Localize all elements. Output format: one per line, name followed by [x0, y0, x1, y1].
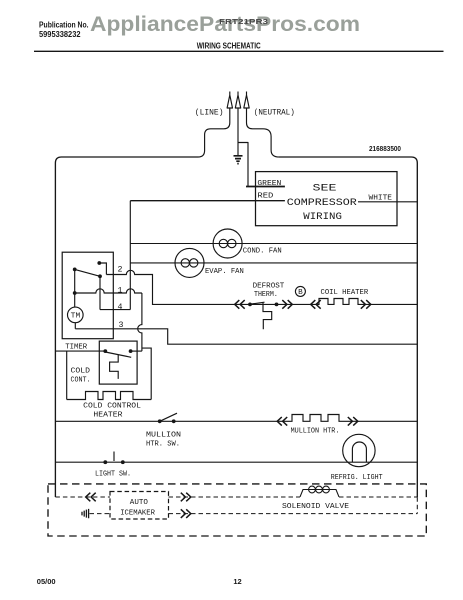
neutral-side plug lead — [247, 108, 279, 157]
connector chevrons defrost — [235, 300, 245, 309]
svg-text:EVAP. FAN: EVAP. FAN — [205, 268, 244, 276]
svg-text:HEATER: HEATER — [93, 411, 123, 419]
line-side plug lead — [198, 108, 230, 157]
evap fan line — [130, 262, 417, 264]
svg-text:SEE: SEE — [313, 183, 337, 195]
mullion heater line — [55, 415, 417, 422]
svg-text:CONT.: CONT. — [71, 377, 91, 385]
timer motor TM — [68, 307, 84, 323]
svg-text:WIRING SCHEMATIC: WIRING SCHEMATIC — [197, 42, 261, 51]
red wire — [130, 200, 285, 202]
svg-text:1: 1 — [118, 286, 123, 296]
cold control heater resistor — [67, 392, 152, 400]
cold control box — [99, 341, 137, 384]
svg-text:WIRING: WIRING — [303, 211, 342, 223]
svg-text:4: 4 — [118, 302, 123, 312]
icemaker feed dashed wire — [55, 497, 417, 514]
svg-text:5995338232: 5995338232 — [39, 30, 81, 39]
optional equipment dashed enclosure — [48, 484, 426, 536]
node B — [295, 286, 305, 296]
svg-text:(LINE): (LINE) — [195, 108, 224, 118]
svg-text:AUTO: AUTO — [130, 499, 149, 507]
light switch — [113, 452, 115, 462]
left border wire — [55, 157, 198, 497]
svg-text:TIMER: TIMER — [65, 344, 87, 352]
white wire — [358, 201, 417, 203]
timer motor wire terminal 3 — [75, 323, 417, 345]
svg-text:COMPRESSOR: COMPRESSOR — [287, 197, 358, 209]
cold control feed wire — [55, 350, 105, 352]
icemaker dashed box — [110, 492, 169, 520]
svg-text:12: 12 — [233, 577, 241, 586]
svg-text:216883500: 216883500 — [369, 146, 401, 153]
mullion heater switch — [160, 413, 177, 421]
svg-text:COND. FAN: COND. FAN — [243, 248, 282, 256]
timer pivot wire — [74, 269, 76, 307]
header rule — [34, 50, 444, 52]
ground prong wire — [237, 108, 239, 155]
cond fan motor — [213, 229, 242, 258]
svg-text:RED: RED — [257, 193, 274, 201]
svg-text:(NEUTRAL): (NEUTRAL) — [254, 108, 295, 118]
svg-text:B: B — [298, 289, 303, 297]
refrigerator light lamp — [343, 434, 375, 466]
ground prong arrow — [235, 92, 240, 109]
timer contact wire term2 to defrost line — [99, 263, 249, 304]
neutral prong arrow — [244, 92, 249, 109]
light switch line — [55, 461, 417, 463]
svg-text:WHITE: WHITE — [369, 195, 393, 203]
svg-text:TM: TM — [71, 313, 81, 321]
timer terminal1 wire to cold control — [75, 289, 152, 400]
ground symbol — [234, 156, 243, 164]
water inlet symbol — [82, 509, 89, 518]
cold control switch blade — [105, 352, 131, 357]
timer box — [62, 252, 113, 339]
cold control heater branch — [66, 351, 68, 399]
svg-text:THERM.: THERM. — [254, 291, 278, 299]
right border wire — [279, 157, 417, 497]
svg-text:05/00: 05/00 — [37, 577, 56, 586]
timer switch blade — [75, 269, 100, 276]
svg-text:REFRIG. LIGHT: REFRIG. LIGHT — [331, 474, 383, 482]
svg-text:ICEMAKER: ICEMAKER — [120, 510, 155, 518]
cold control output wire — [131, 350, 142, 352]
compressor box U1 — [256, 172, 398, 226]
svg-text:HTR. SW.: HTR. SW. — [146, 440, 180, 448]
svg-text:MULLION HTR.: MULLION HTR. — [291, 428, 340, 436]
green wire terminal — [246, 186, 285, 188]
svg-text:FRT21PR3: FRT21PR3 — [219, 19, 268, 26]
timer contact B wire to terminal 4 — [100, 276, 130, 309]
svg-text:MULLION: MULLION — [146, 431, 181, 439]
defrost thermostat — [249, 302, 317, 329]
svg-text:2: 2 — [118, 265, 123, 275]
contact dots — [73, 261, 102, 295]
svg-text:COLD: COLD — [71, 368, 91, 376]
svg-text:COIL HEATER: COIL HEATER — [321, 289, 369, 297]
cond fan line — [130, 243, 417, 245]
svg-text:Publication No.: Publication No. — [39, 21, 89, 30]
solenoid valve coil — [300, 486, 339, 497]
svg-text:COLD CONTROL: COLD CONTROL — [83, 403, 141, 411]
green ground branch wire — [238, 143, 248, 187]
svg-text:LIGHT SW.: LIGHT SW. — [95, 470, 131, 478]
line prong arrow — [227, 92, 232, 109]
svg-text:DEFROST: DEFROST — [253, 283, 285, 291]
evap fan motor — [175, 248, 204, 277]
svg-text:SOLENOID VALVE: SOLENOID VALVE — [282, 503, 350, 511]
coil heater resistor — [317, 299, 417, 305]
main line bus from red wire — [129, 201, 131, 310]
svg-text:GREEN: GREEN — [257, 180, 281, 188]
cold control bellows — [110, 355, 119, 379]
